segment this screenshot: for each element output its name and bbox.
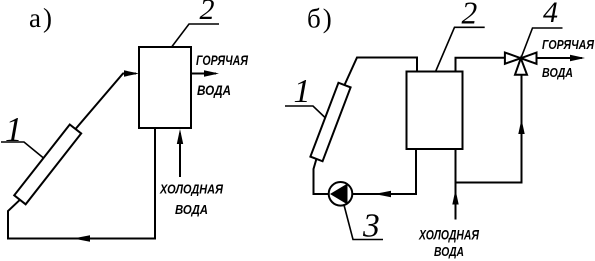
collector 1 (b): [310, 83, 350, 161]
svg-text:3: 3: [362, 208, 380, 245]
leader line for label 2 (b): [436, 27, 485, 71]
return pipe tank to collector via pump (b): [314, 149, 417, 194]
return flow arrowhead (b): [375, 191, 392, 197]
three-way valve 4 (b): [505, 53, 537, 75]
arrowhead into tank (a): [124, 70, 139, 76]
hot water arrow (a): [191, 73, 216, 75]
svg-text:2: 2: [462, 0, 478, 31]
pump 3 (b): [329, 182, 353, 206]
return pipe tank to collector (a): [8, 128, 155, 239]
svg-text:1: 1: [5, 110, 23, 149]
svg-text:4: 4: [543, 0, 558, 29]
valve feed arrowhead (b): [518, 119, 524, 134]
tank 2 (b): [407, 72, 463, 150]
svg-text:ГОРЯЧАЯ: ГОРЯЧАЯ: [196, 52, 249, 68]
svg-text:ВОДА: ВОДА: [175, 202, 208, 217]
wire tank top to valve (b): [456, 58, 506, 72]
wire collector top to tank (b): [345, 58, 418, 86]
svg-text:ВОДА: ВОДА: [197, 82, 231, 98]
leader line for label 1 (b): [285, 106, 325, 118]
leader line for label 3 (b): [344, 205, 383, 240]
tank 2 (a): [139, 47, 191, 128]
cold water inlet arrow (a): [179, 133, 181, 177]
leader line for label 1 (a): [1, 142, 44, 158]
svg-text:б): б): [307, 4, 334, 34]
hot water arrow (b): [537, 57, 583, 59]
cold water inlet line (b): [455, 149, 457, 220]
valve cold-feed pipe (b): [456, 75, 522, 183]
cold water arrowhead (b): [452, 190, 458, 205]
svg-text:2: 2: [200, 0, 215, 26]
svg-text:ВОДА: ВОДА: [542, 65, 573, 80]
leader line for label 2 (a): [172, 24, 219, 47]
svg-text:ХОЛОДНАЯ: ХОЛОДНАЯ: [159, 183, 224, 197]
svg-text:1: 1: [294, 73, 311, 110]
svg-text:ХОЛОДНАЯ: ХОЛОДНАЯ: [418, 227, 479, 243]
leader line for label 4 (b): [519, 28, 563, 64]
svg-text:ГОРЯЧАЯ: ГОРЯЧАЯ: [542, 37, 594, 52]
svg-text:а): а): [29, 3, 54, 33]
svg-text:ВОДА: ВОДА: [434, 244, 464, 259]
wire collector top to tank (hot riser, a): [76, 74, 137, 130]
return flow arrowhead (a): [73, 235, 90, 241]
collector 1 (a): [14, 125, 81, 205]
